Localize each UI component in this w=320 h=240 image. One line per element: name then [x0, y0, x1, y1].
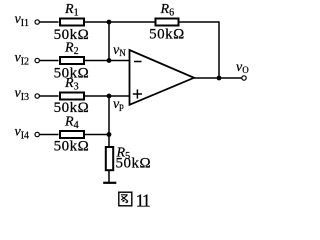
wire row2 input to R2 — [39, 60, 58, 62]
wire vN node to op-amp minus input — [109, 60, 130, 62]
terminal vI2 — [35, 58, 39, 62]
resistor R6 — [156, 19, 179, 26]
terminal vO — [242, 76, 246, 80]
svg-text:50kΩ: 50kΩ — [116, 156, 152, 172]
op-amp minus sign — [134, 61, 142, 63]
ground — [103, 182, 116, 184]
op-amp U1 — [130, 50, 195, 105]
node junction R1/feedback — [107, 20, 112, 25]
node vP junction — [107, 94, 112, 99]
svg-text:50kΩ: 50kΩ — [149, 27, 185, 43]
wire row3 input to R3 — [39, 95, 58, 97]
wire R3 to vP node — [85, 95, 110, 97]
node junction output — [217, 76, 222, 81]
terminal vI3 — [35, 94, 39, 98]
op-amp plus sign — [133, 93, 142, 95]
wire node to R6 — [109, 21, 155, 23]
wire vN bus vertical — [108, 22, 110, 61]
caption figure 11 glyph tu — [119, 192, 132, 206]
resistor R3 — [60, 93, 84, 100]
wire R4 to bus node — [85, 134, 110, 136]
wire R2 to vN node — [85, 60, 110, 62]
wire feedback vertical — [218, 21, 220, 78]
resistor R4 — [60, 131, 84, 138]
wire R5 bottom to ground — [108, 171, 110, 183]
node junction R4 — [107, 132, 112, 137]
wire R6 to corner — [180, 21, 220, 23]
resistor R2 — [60, 57, 84, 64]
terminal vI1 — [35, 20, 39, 24]
node vN junction — [107, 58, 112, 63]
wire row1 input to R1 — [39, 21, 58, 23]
wire row4 input to R4 — [39, 134, 58, 136]
resistor R5 — [106, 147, 113, 170]
wire vP node to op-amp plus input — [109, 95, 130, 97]
wire R1 to node vN bus — [85, 21, 110, 23]
svg-text:11: 11 — [136, 190, 150, 210]
wire vP bus vertical to R4 node and R5 — [108, 96, 110, 147]
svg-text:50kΩ: 50kΩ — [54, 139, 90, 155]
wire op-amp output — [194, 77, 242, 79]
terminal vI4 — [35, 132, 39, 136]
resistor R1 — [60, 19, 84, 26]
